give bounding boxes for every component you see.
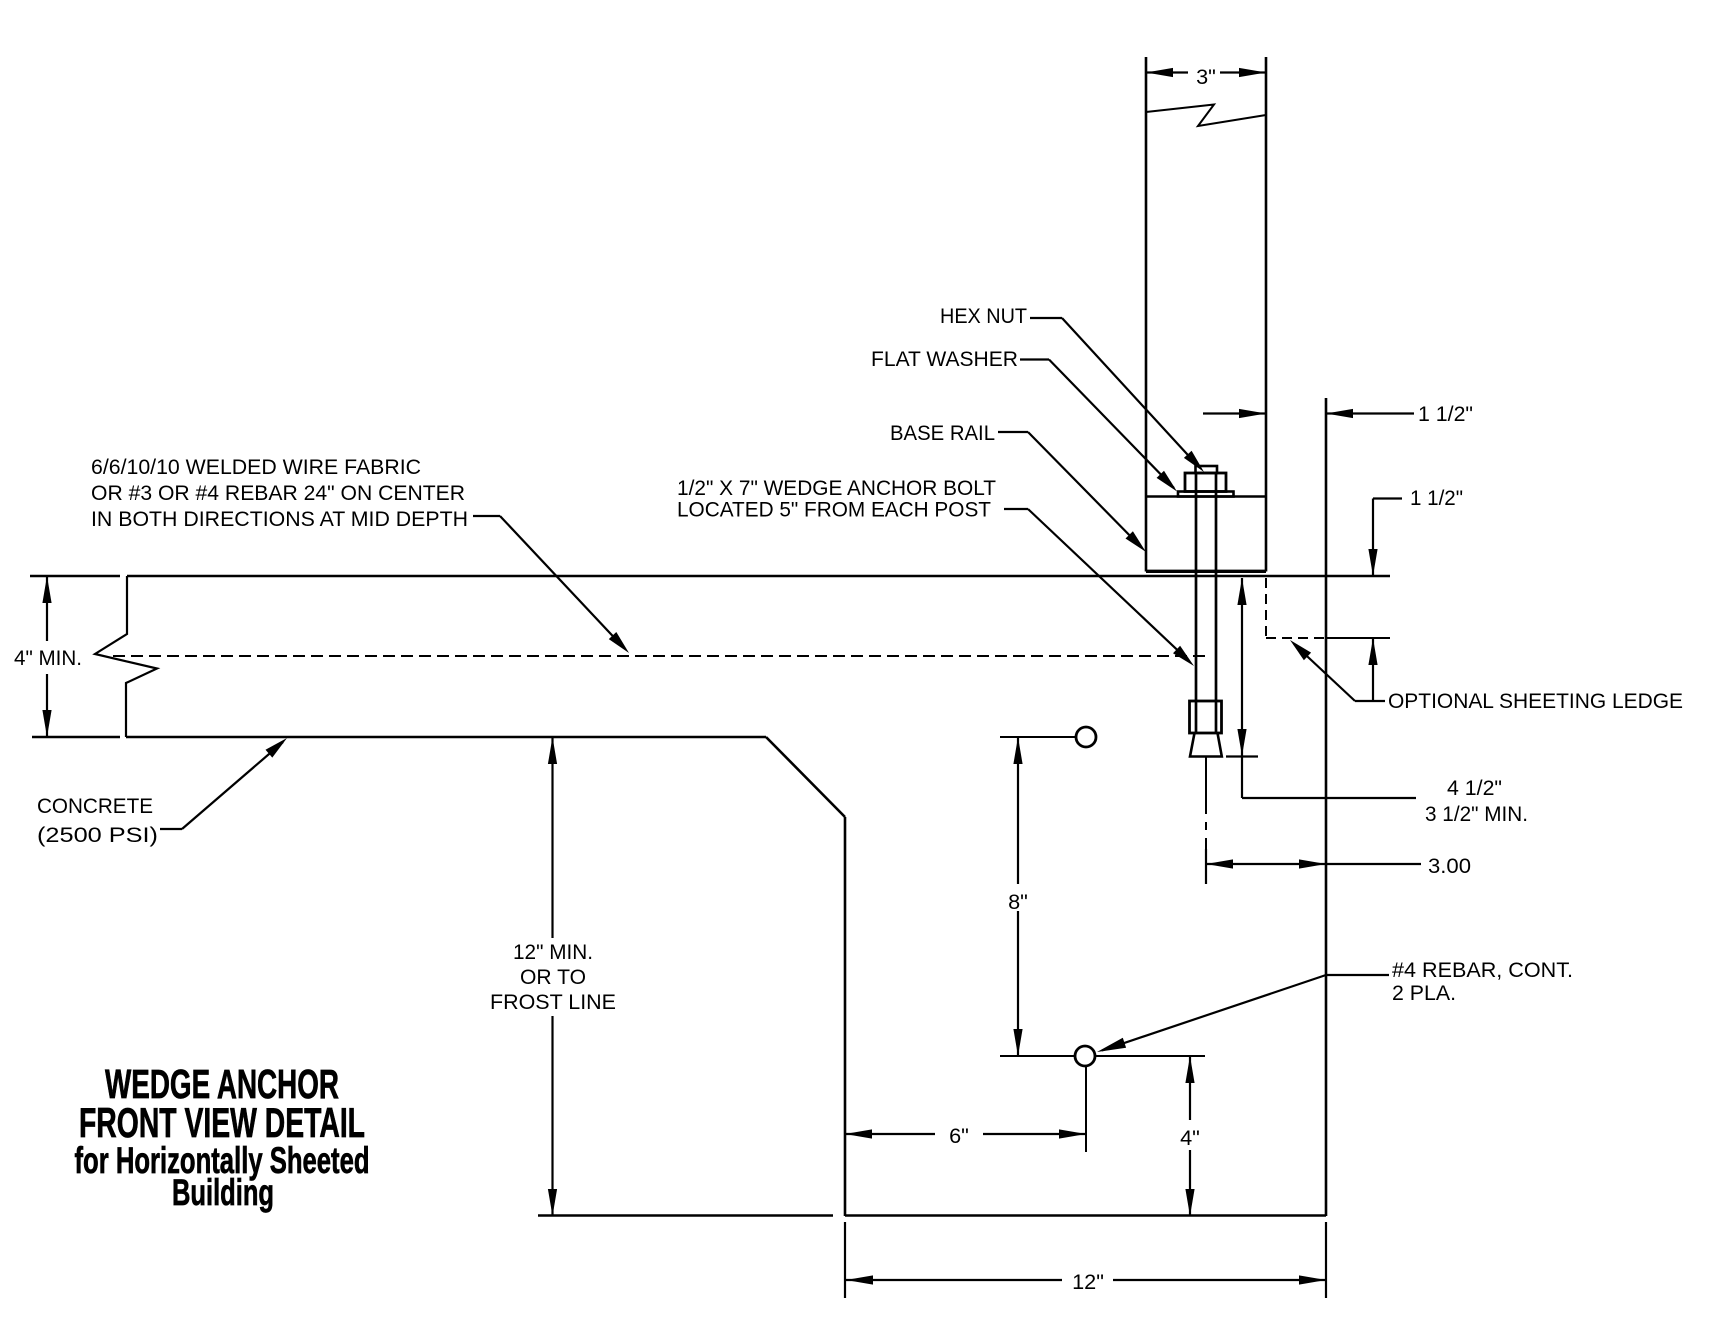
wire fabric dashed line (113, 655, 1206, 657)
dim 3in (1146, 58, 1266, 89)
svg-text:BASE RAIL: BASE RAIL (890, 420, 995, 445)
svg-text:FLAT WASHER: FLAT WASHER (871, 346, 1018, 371)
svg-text:OR #3 OR #4 REBAR 24" ON CENTE: OR #3 OR #4 REBAR 24" ON CENTER (91, 480, 465, 505)
footing chamfer (766, 737, 845, 817)
dim 8in (1008, 737, 1028, 1056)
svg-text:2 PLA.: 2 PLA. (1392, 980, 1456, 1005)
footing left edge (844, 817, 847, 1216)
dim 4in-min (12, 576, 86, 737)
leader hex nut (1030, 318, 1204, 472)
hex nut (1185, 473, 1226, 492)
dim 3.00 (1206, 849, 1471, 884)
base rail bottom (1146, 570, 1266, 573)
base rail top (1146, 495, 1266, 497)
svg-text:3": 3" (1196, 64, 1216, 89)
wedge cone (1190, 733, 1222, 757)
svg-text:CONCRETE: CONCRETE (37, 793, 153, 818)
svg-text:6/6/10/10 WELDED WIRE FABRIC: 6/6/10/10 WELDED WIRE FABRIC (91, 454, 421, 479)
title line 3 (75, 1140, 370, 1181)
svg-text:(2500 PSI): (2500 PSI) (37, 822, 158, 847)
flat washer (1178, 492, 1234, 497)
dim 12in-min (490, 737, 616, 1216)
svg-text:12": 12" (1072, 1269, 1104, 1294)
label flat washer (871, 346, 1018, 371)
leader wire fabric (473, 516, 629, 653)
svg-text:LOCATED 5" FROM EACH POST: LOCATED 5" FROM EACH POST (677, 497, 991, 522)
title line 2 (79, 1099, 365, 1146)
label anchor bolt (677, 475, 996, 522)
leader #4 rebar (1097, 975, 1389, 1052)
sheeting ledge dashed (1266, 578, 1326, 638)
svg-text:Building: Building (172, 1172, 274, 1213)
svg-text:6": 6" (949, 1123, 969, 1148)
svg-text:FRONT VIEW DETAIL: FRONT VIEW DETAIL (79, 1099, 365, 1146)
svg-text:1 1/2": 1 1/2" (1410, 485, 1463, 510)
slab top surface (30, 575, 1390, 578)
svg-text:FROST LINE: FROST LINE (490, 989, 616, 1014)
dim 4-1/2in (1226, 578, 1528, 826)
label hex nut (940, 303, 1027, 328)
svg-text:4" MIN.: 4" MIN. (14, 645, 82, 670)
svg-text:HEX NUT: HEX NUT (940, 303, 1027, 328)
leader flat washer (1020, 360, 1177, 492)
label wire fabric (91, 454, 468, 531)
bolt centerline (1205, 757, 1207, 884)
svg-text:8": 8" (1008, 889, 1028, 914)
leader sheeting ledge (1290, 640, 1385, 701)
leader anchor bolt (1004, 509, 1194, 666)
svg-text:4": 4" (1180, 1125, 1200, 1150)
post left edge (1145, 57, 1148, 572)
slab bottom (32, 736, 766, 739)
dim 6in (845, 1123, 1086, 1148)
rebar circle top (1000, 727, 1096, 747)
svg-text:IN BOTH DIRECTIONS AT MID DEPT: IN BOTH DIRECTIONS AT MID DEPTH (91, 506, 468, 531)
svg-text:OPTIONAL SHEETING LEDGE: OPTIONAL SHEETING LEDGE (1388, 688, 1683, 713)
leader base rail (998, 432, 1146, 552)
svg-text:12" MIN.: 12" MIN. (513, 939, 593, 964)
label sheeting ledge (1388, 688, 1683, 713)
svg-text:4 1/2": 4 1/2" (1447, 775, 1502, 800)
ledge extension line (1326, 637, 1390, 639)
dim 4in (1180, 1056, 1200, 1216)
svg-text:OR TO: OR TO (520, 964, 586, 989)
svg-text:3.00: 3.00 (1428, 853, 1471, 878)
svg-text:3 1/2" MIN.: 3 1/2" MIN. (1425, 801, 1528, 826)
title line 4 (172, 1172, 274, 1213)
svg-text:1 1/2": 1 1/2" (1418, 401, 1473, 426)
label #4 rebar (1392, 957, 1573, 1005)
dim 1-1/2in upper (1203, 401, 1473, 426)
label concrete (37, 793, 158, 847)
label base rail (890, 420, 995, 445)
concrete right edge (1325, 398, 1328, 1216)
dim 1-1/2in ledge (1368, 485, 1463, 700)
leader concrete (160, 738, 287, 829)
post right edge (1265, 57, 1268, 572)
title line 1 (105, 1061, 339, 1107)
dim 12in bottom (845, 1222, 1326, 1298)
slab left break (95, 576, 157, 737)
anchor bolt shank (1196, 473, 1216, 701)
footing bottom (538, 1214, 1326, 1217)
rebar circle bottom (1000, 1046, 1205, 1152)
expansion sleeve (1190, 701, 1222, 733)
svg-text:#4 REBAR, CONT.: #4 REBAR, CONT. (1392, 957, 1573, 982)
bolt stub above nut (1196, 466, 1218, 473)
post break symbol (1146, 105, 1266, 127)
